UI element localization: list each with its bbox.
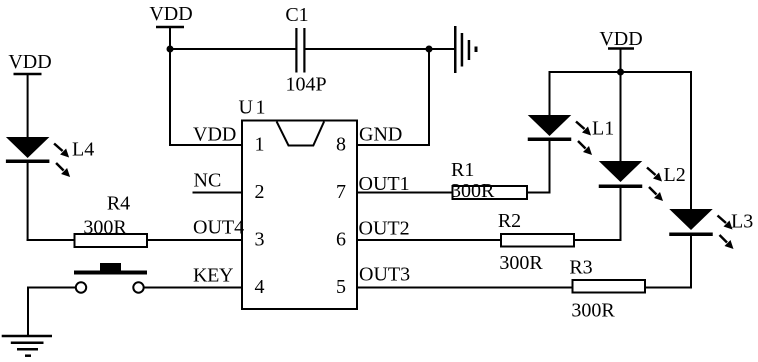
svg-text:L1: L1	[592, 118, 614, 140]
svg-text:300R: 300R	[499, 252, 543, 274]
wire R1 to LED L1 cathode	[527, 141, 550, 194]
wire button right to IC pin 4	[145, 287, 243, 289]
svg-text:R3: R3	[569, 257, 592, 279]
pin 5 number	[336, 276, 346, 298]
svg-text:300R: 300R	[83, 217, 127, 239]
wire IC pin 6 to R2	[357, 239, 501, 241]
svg-text:OUT2: OUT2	[359, 218, 410, 240]
wire R4 to IC pin 3	[147, 239, 242, 241]
wire VDD mid to C1 left plate	[170, 48, 296, 50]
power VDD right label	[599, 28, 642, 72]
svg-text:C1: C1	[285, 4, 308, 26]
svg-text:8: 8	[336, 134, 346, 156]
svg-text:KEY: KEY	[193, 265, 234, 287]
svg-text:300R: 300R	[571, 300, 615, 322]
svg-text:VDD: VDD	[599, 28, 642, 50]
node junction dot at VDD mid rail	[167, 46, 174, 53]
power VDD middle label	[149, 3, 192, 49]
wire L3 cathode down to OUT3 row	[645, 236, 692, 289]
svg-text:OUT4: OUT4	[193, 217, 244, 239]
wire C1 right plate to top ground	[306, 48, 455, 50]
op-amp U1 IC body	[239, 97, 358, 310]
resistor R2	[498, 210, 574, 274]
pin name OUT4 (pin 3)	[193, 217, 244, 239]
capacitor C1	[285, 4, 326, 96]
wire button left to ground	[27, 287, 75, 337]
svg-text:R1: R1	[451, 159, 474, 181]
pin name OUT1 (pin 7)	[359, 173, 410, 195]
ground bottom-left	[2, 336, 52, 356]
wire rail corner down to LED L3 anode	[690, 71, 692, 210]
pin 3 number	[255, 229, 265, 251]
svg-text:OUT3: OUT3	[359, 264, 410, 286]
svg-text:3: 3	[255, 229, 265, 251]
pin name OUT3 (pin 5)	[359, 264, 410, 286]
svg-text:VDD: VDD	[193, 124, 236, 146]
svg-text:R2: R2	[498, 210, 521, 232]
svg-text:NC: NC	[194, 170, 222, 192]
wire IC pin 5 to R3	[357, 287, 573, 289]
power VDD left label	[8, 51, 51, 74]
svg-text:104P: 104P	[285, 74, 326, 96]
LED L3	[669, 209, 753, 249]
pin name NC (pin 2)	[194, 170, 222, 192]
wire VDD right rail	[549, 71, 693, 73]
svg-text:R4: R4	[107, 193, 130, 215]
pin 6 number	[336, 229, 346, 251]
node junction dot at VDD right rail	[617, 69, 624, 76]
pin 4 number	[255, 276, 265, 298]
pin name VDD (pin 1)	[193, 124, 236, 146]
svg-text:L3: L3	[731, 211, 753, 233]
wire VDD mid down to IC pin 1	[169, 49, 242, 145]
pin 7 number	[336, 181, 346, 203]
pin name OUT2 (pin 6)	[359, 218, 410, 240]
node junction dot at GND branch	[426, 46, 433, 53]
pin name KEY (pin 4)	[193, 265, 234, 287]
LED L2	[599, 161, 686, 201]
svg-text:5: 5	[336, 276, 346, 298]
svg-text:U1: U1	[239, 97, 268, 119]
svg-text:6: 6	[336, 229, 346, 251]
wire L2 cathode down to OUT2 row	[574, 188, 622, 241]
svg-text:7: 7	[336, 181, 346, 203]
svg-text:4: 4	[255, 276, 265, 298]
pin 8 number	[336, 134, 346, 156]
svg-text:VDD: VDD	[149, 3, 192, 25]
wire L1 anode to VDD rail	[549, 72, 551, 116]
svg-text:1: 1	[255, 134, 265, 156]
wire L4 cathode down to OUT4 row	[27, 163, 75, 241]
pin 1 number	[255, 134, 265, 156]
svg-text:2: 2	[255, 181, 265, 203]
svg-text:L4: L4	[72, 139, 94, 161]
svg-text:L2: L2	[664, 164, 686, 186]
svg-text:300R: 300R	[451, 180, 495, 202]
pin name GND (pin 8)	[359, 124, 402, 146]
svg-text:GND: GND	[359, 124, 402, 146]
ground top-right (horizontal earth)	[454, 26, 478, 73]
resistor R3	[569, 257, 645, 322]
LED L4	[6, 137, 94, 177]
wire IC pin 7 to R1	[357, 192, 453, 194]
LED L1	[528, 115, 614, 155]
pin 2 number	[255, 181, 265, 203]
svg-text:VDD: VDD	[8, 51, 51, 73]
wire rail down to LED L2 anode	[620, 72, 622, 162]
wire NC stub	[193, 192, 243, 194]
wire VDD-left to LED L4 anode	[27, 74, 29, 138]
wire GND dot down to IC pin 8	[357, 49, 430, 145]
resistor R1	[451, 159, 527, 202]
push button KEY	[74, 263, 147, 293]
resistor R4	[75, 193, 148, 248]
